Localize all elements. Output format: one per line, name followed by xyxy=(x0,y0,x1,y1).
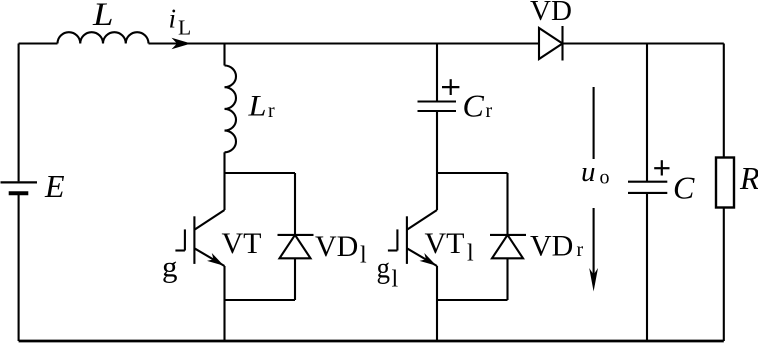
inductor L xyxy=(58,32,149,43)
diode VD xyxy=(539,26,563,61)
svg-text:l: l xyxy=(467,241,474,267)
wire branch C bottom xyxy=(646,193,648,341)
wire top-right segment xyxy=(563,42,724,44)
wire left lower xyxy=(18,195,20,341)
battery E xyxy=(1,182,38,193)
svg-text:L: L xyxy=(247,90,266,123)
svg-text:C: C xyxy=(463,88,485,124)
svg-text:l: l xyxy=(360,243,367,269)
wire parallel1 top xyxy=(225,172,296,174)
plus sign Cr xyxy=(442,79,459,95)
wire branch1 top stub xyxy=(223,44,225,66)
plus sign C xyxy=(654,160,669,175)
svg-text:L: L xyxy=(92,0,114,33)
wire bottom xyxy=(19,340,724,343)
svg-text:u: u xyxy=(581,156,596,188)
svg-text:L: L xyxy=(178,16,191,40)
capacitor C xyxy=(628,182,667,193)
wire left upper xyxy=(18,44,20,182)
svg-text:VT: VT xyxy=(425,227,465,260)
wire branch C top xyxy=(646,44,648,182)
svg-text:r: r xyxy=(577,239,584,261)
capacitor Cr xyxy=(418,102,457,112)
wire parallel2 top xyxy=(437,172,508,174)
voltage arrow uo xyxy=(589,87,598,292)
svg-text:i: i xyxy=(169,4,177,34)
svg-text:r: r xyxy=(268,100,275,122)
wire right upper xyxy=(723,44,725,158)
wire parallel2 bottom xyxy=(437,299,508,301)
svg-text:VT: VT xyxy=(222,227,262,260)
svg-text:E: E xyxy=(44,168,65,204)
wire parallel1 bottom xyxy=(225,299,296,301)
wire branch2 top stub xyxy=(436,44,438,102)
resistor R xyxy=(716,158,734,208)
svg-text:r: r xyxy=(486,100,493,122)
transistor VT1 xyxy=(388,173,437,300)
transistor VT xyxy=(175,173,224,300)
wire branch2 to bottom xyxy=(436,300,438,341)
svg-text:g: g xyxy=(377,252,391,285)
svg-text:R: R xyxy=(739,160,758,196)
wire branch1 coil to node xyxy=(223,152,225,173)
wire right lower xyxy=(723,208,725,342)
svg-text:C: C xyxy=(673,170,695,206)
diode VD1 xyxy=(278,173,314,300)
inductor Lr xyxy=(225,66,237,153)
svg-text:VD: VD xyxy=(530,0,572,27)
wire branch1 to bottom xyxy=(223,300,225,341)
diode VDr xyxy=(490,173,526,300)
wire branch2 cap to node xyxy=(436,111,438,173)
current arrow iL xyxy=(172,38,192,49)
svg-text:VD: VD xyxy=(315,230,358,263)
wire top-left segment xyxy=(19,42,58,44)
svg-text:VD: VD xyxy=(530,230,573,263)
svg-text:o: o xyxy=(600,167,610,189)
wire top middle (inductor to diode VD) xyxy=(149,42,540,44)
svg-text:g: g xyxy=(162,251,178,284)
svg-text:l: l xyxy=(392,267,399,293)
